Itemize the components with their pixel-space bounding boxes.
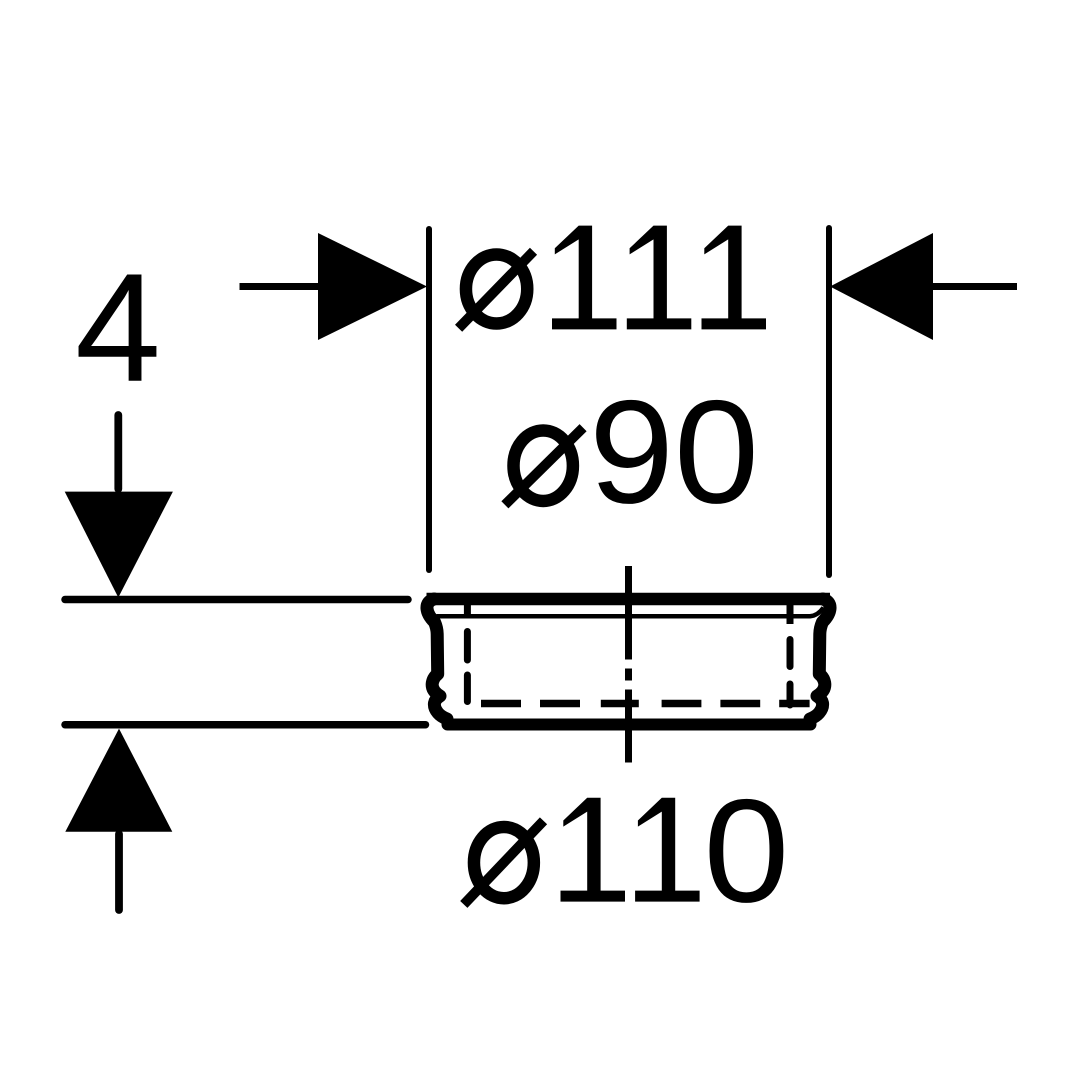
svg-text:90: 90 [589,369,759,534]
seal ring body: right profile [810,599,830,719]
extension line left (x=429) [426,229,432,570]
label o111: diameter symbol ring [466,254,527,323]
svg-text:4: 4 [75,241,161,414]
arrowhead left (o111, pointing right) [318,233,427,340]
label o90: diameter symbol ring [514,430,573,501]
dimension line left segment (o111) [240,283,323,290]
label o111: digit 1 (first) [552,226,617,330]
arrowhead right (o111, pointing left) [830,233,933,340]
centerline vertical dash-dot [625,566,632,763]
label o110: diameter symbol slash [464,821,544,905]
dimension 4: lower extension line [65,721,426,729]
label o110: diameter symbol ring [474,827,534,898]
dimension line right segment (o111) [933,283,1017,290]
hidden line: right dashed vertical [787,640,794,706]
hidden line: bottom dashed horizontal [481,700,810,708]
hidden line: left dashed vertical [464,632,471,702]
label o90: diameter symbol slash [505,428,583,505]
svg-text:0: 0 [704,769,790,933]
seal ring body: right tick (o90 edge) [787,601,794,624]
seal ring body: bottom bar [448,719,811,731]
label o111: diameter symbol slash [459,251,534,328]
label o110: digit 1 (second) [635,798,700,902]
seal ring body: top bar [427,593,831,606]
label o110: digit 1 (first) [561,798,626,902]
dimension 4: up arrowhead [65,729,172,832]
dimension 4: up arrow stem [115,834,123,910]
label o111: digit 1 (third) [702,226,767,330]
label o111: digit 1 (second) [627,226,692,330]
extension line right (x=829) [826,228,832,575]
dimension 4: upper extension line [65,596,408,604]
seal ring body: left tick (o90 edge) [464,601,471,619]
dimension 4: down arrow stem [114,415,122,489]
seal ring body: inner thin line [437,608,824,617]
seal ring body: left profile [427,599,447,719]
dimension 4: down arrowhead [65,492,173,598]
